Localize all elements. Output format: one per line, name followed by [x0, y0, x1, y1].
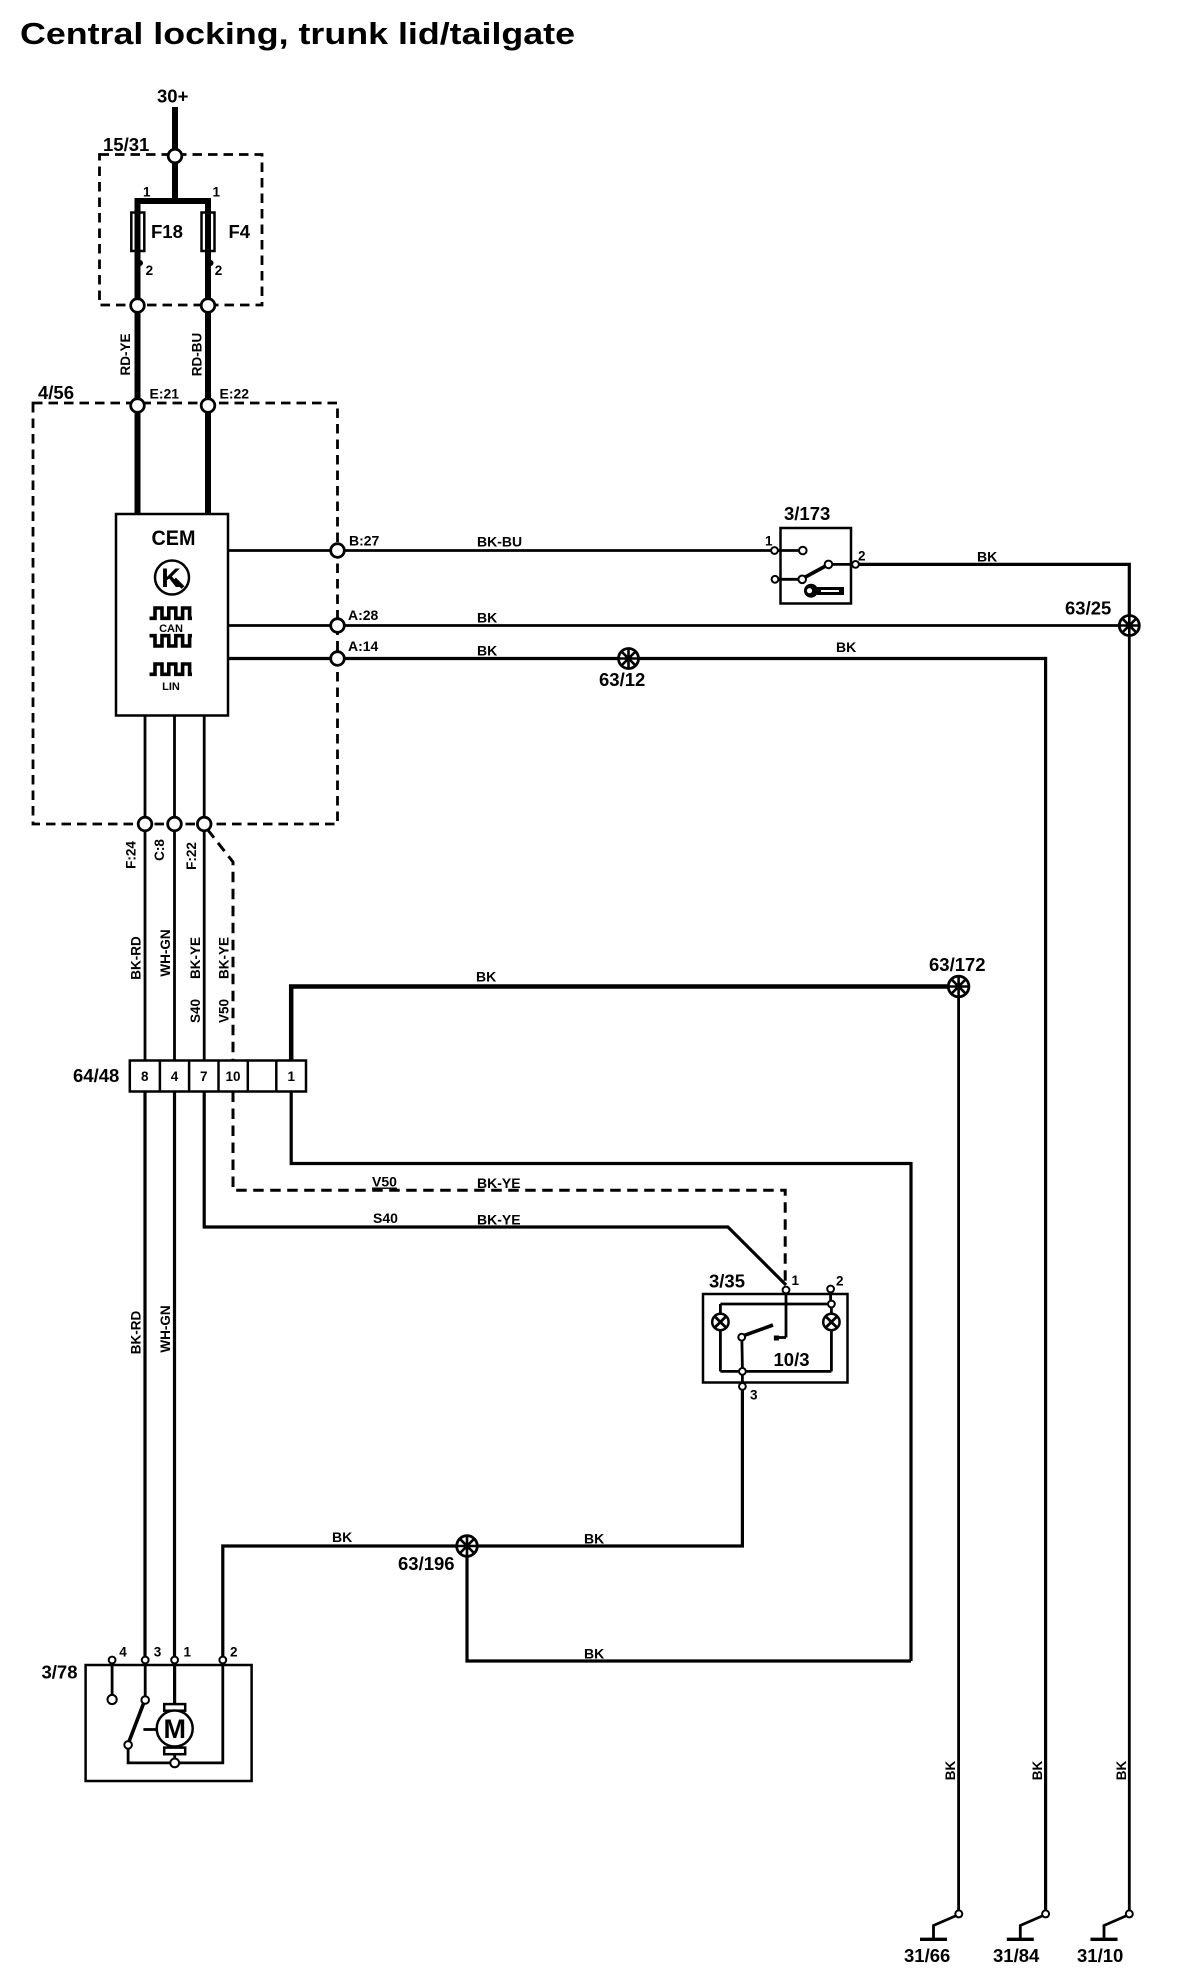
- svg-text:1: 1: [792, 1273, 800, 1288]
- svg-text:CEM: CEM: [152, 527, 196, 550]
- wire RD-YE: [135, 312, 141, 514]
- svg-text:BK: BK: [943, 1761, 958, 1781]
- connector E:22: [201, 399, 215, 413]
- pin 2 dot F18: [137, 260, 143, 266]
- svg-text:A:14: A:14: [348, 638, 379, 654]
- wire V50 BK-YE dashed branch: [208, 830, 234, 1061]
- svg-text:63/25: 63/25: [1065, 598, 1111, 619]
- wire 30+ feed: [172, 107, 178, 153]
- svg-text:3/173: 3/173: [784, 503, 830, 524]
- svg-text:B:27: B:27: [349, 533, 380, 549]
- wire V50 BK-YE dashed lower run: [233, 1092, 785, 1289]
- connector C:8: [168, 817, 182, 831]
- wire motor minus to pin 2: [179, 1663, 223, 1763]
- connector A:14: [331, 652, 345, 666]
- svg-text:S40: S40: [373, 1210, 398, 1226]
- svg-text:1: 1: [184, 1645, 192, 1660]
- trunk lid switch 3/35: [703, 1271, 848, 1403]
- pin F:22 stub: [203, 716, 206, 819]
- key symbol K: [155, 561, 189, 595]
- CAN symbol: [150, 608, 193, 618]
- svg-text:3/35: 3/35: [709, 1271, 745, 1292]
- svg-text:31/10: 31/10: [1077, 1945, 1123, 1966]
- pin B:27 stub: [228, 549, 331, 552]
- svg-text:63/196: 63/196: [398, 1553, 455, 1574]
- svg-text:10/3: 10/3: [774, 1349, 810, 1370]
- svg-text:V50: V50: [217, 999, 232, 1023]
- connector E:21: [131, 399, 145, 413]
- lamp right in 3/35: [823, 1314, 839, 1330]
- svg-text:2: 2: [858, 549, 866, 564]
- wire BK key switch to splice 63/25: [859, 564, 1129, 617]
- svg-text:64/48: 64/48: [73, 1065, 119, 1086]
- svg-text:4: 4: [171, 1069, 179, 1084]
- svg-text:3: 3: [750, 1388, 758, 1403]
- svg-text:31/66: 31/66: [904, 1945, 950, 1966]
- wire WH-GN lower run: [173, 1092, 176, 1657]
- wire BK-RD: [144, 831, 147, 1061]
- connector fuse box exit left: [131, 299, 145, 313]
- svg-text:BK-YE: BK-YE: [477, 1175, 521, 1191]
- pin 4 stub: [111, 1663, 114, 1695]
- wire S40 BK-YE lower run: [204, 1092, 786, 1286]
- wire WH-GN: [173, 831, 176, 1061]
- svg-text:2: 2: [230, 1645, 238, 1660]
- svg-text:BK: BK: [1114, 1761, 1129, 1781]
- svg-text:E:21: E:21: [150, 386, 180, 402]
- wire lamp feed from pin 1: [291, 1092, 911, 1662]
- motor M in 3/78: [173, 1663, 176, 1704]
- svg-text:M: M: [163, 1714, 186, 1744]
- svg-text:F18: F18: [151, 221, 183, 242]
- lamp left in 3/35: [712, 1314, 728, 1330]
- fuse box 15/31: [100, 155, 263, 306]
- wire BK to splice 63/172: [291, 987, 948, 1061]
- key switch 3/173: [765, 503, 866, 604]
- svg-text:BK: BK: [332, 1529, 352, 1545]
- svg-text:1: 1: [765, 534, 773, 549]
- svg-text:BK: BK: [584, 1531, 604, 1547]
- splice 63/25: [1065, 598, 1139, 636]
- svg-text:BK: BK: [476, 969, 496, 985]
- wire BK splice down and to lamp feed corner: [467, 1556, 911, 1662]
- svg-text:8: 8: [141, 1069, 149, 1084]
- svg-text:C:8: C:8: [152, 839, 167, 861]
- svg-text:4/56: 4/56: [38, 382, 74, 403]
- svg-text:BK-BU: BK-BU: [477, 534, 522, 550]
- lock motor unit 3/78: [42, 1645, 252, 1782]
- wire BK-BU to key switch: [344, 549, 771, 552]
- svg-text:BK: BK: [977, 549, 997, 565]
- svg-text:K: K: [161, 563, 181, 593]
- wire BK splice to lock unit pin 2: [223, 1546, 458, 1656]
- splice 63/12: [599, 649, 645, 691]
- svg-text:63/172: 63/172: [929, 954, 986, 975]
- svg-text:BK-YE: BK-YE: [217, 937, 232, 979]
- wire BK splice 63/12 to corner: [638, 657, 1047, 660]
- CEM module box: [116, 514, 228, 716]
- pin F:24 stub: [144, 716, 147, 819]
- wire BK down to ground 31/84: [1044, 659, 1045, 1911]
- svg-text:3: 3: [154, 1645, 162, 1660]
- connector F:22: [197, 817, 211, 831]
- connector F:24: [138, 817, 152, 831]
- svg-text:BK: BK: [477, 643, 497, 659]
- svg-text:BK: BK: [836, 639, 856, 655]
- svg-text:BK: BK: [1030, 1761, 1045, 1781]
- svg-text:RD-BU: RD-BU: [190, 333, 205, 377]
- wire BK down to ground 31/10: [1128, 635, 1131, 1911]
- svg-text:3/78: 3/78: [42, 1662, 78, 1683]
- pin C:8 stub: [173, 716, 176, 819]
- ground 31/84: [993, 1910, 1049, 1966]
- svg-text:10: 10: [225, 1069, 240, 1084]
- svg-text:S40: S40: [188, 999, 203, 1023]
- wire 30+ to fuse bus: [172, 163, 178, 201]
- ground 31/10: [1077, 1910, 1133, 1966]
- svg-text:BK: BK: [477, 610, 497, 626]
- switch lever in 3/35: [744, 1325, 774, 1336]
- svg-text:1: 1: [287, 1069, 295, 1084]
- LIN symbol: [150, 664, 193, 674]
- wire fuse feed bus: [135, 198, 212, 204]
- svg-text:WH-GN: WH-GN: [158, 1305, 173, 1352]
- wire pivot to motor minus: [128, 1749, 170, 1763]
- wire RD-BU: [205, 312, 211, 514]
- svg-text:2: 2: [836, 1274, 844, 1289]
- svg-text:BK-YE: BK-YE: [188, 937, 203, 979]
- svg-text:WH-GN: WH-GN: [158, 929, 173, 976]
- connector 64/48: [73, 1061, 306, 1092]
- svg-text:F:22: F:22: [184, 842, 199, 870]
- wire BK switch 3/35 to splice 63/196: [476, 1390, 742, 1546]
- splice 63/172: [929, 954, 986, 997]
- wire F4 leg: [205, 198, 211, 305]
- wire BK to splice 63/25: [344, 624, 1119, 627]
- connector B:27: [331, 544, 345, 558]
- svg-text:BK-RD: BK-RD: [129, 936, 144, 980]
- svg-text:E:22: E:22: [220, 386, 250, 402]
- svg-text:RD-YE: RD-YE: [118, 333, 133, 375]
- connector fuse box exit right: [201, 299, 215, 313]
- svg-text:F:24: F:24: [124, 841, 139, 869]
- svg-text:V50: V50: [372, 1174, 397, 1190]
- wire S40 BK-YE: [203, 831, 206, 1061]
- splice 63/196: [398, 1536, 477, 1574]
- wire BK-RD lower run: [143, 1092, 146, 1657]
- wire BK down to ground 31/66: [957, 996, 960, 1910]
- wire BK to splice 63/12: [344, 657, 618, 660]
- svg-text:A:28: A:28: [348, 607, 379, 623]
- ground 31/66: [904, 1910, 962, 1966]
- svg-text:BK-RD: BK-RD: [129, 1311, 144, 1355]
- svg-text:BK-YE: BK-YE: [477, 1212, 521, 1228]
- switch in 3/78: [144, 1663, 147, 1696]
- fuse F18: [131, 213, 144, 252]
- svg-text:1: 1: [143, 185, 151, 200]
- svg-text:7: 7: [200, 1069, 208, 1084]
- svg-text:1: 1: [213, 185, 221, 200]
- pin 2 dot F4: [208, 260, 214, 266]
- svg-text:CAN: CAN: [159, 623, 183, 635]
- wire F18 leg: [135, 198, 141, 305]
- pin A:28 stub: [228, 624, 331, 627]
- connector A:28: [331, 619, 345, 633]
- fuse F4: [202, 213, 215, 252]
- pin A:14 stub: [228, 657, 331, 660]
- ECU enclosure 4/56: [33, 403, 338, 824]
- svg-text:2: 2: [215, 263, 223, 278]
- svg-text:LIN: LIN: [162, 681, 180, 693]
- svg-text:63/12: 63/12: [599, 669, 645, 690]
- svg-text:15/31: 15/31: [103, 134, 149, 155]
- svg-text:30+: 30+: [157, 86, 189, 107]
- svg-text:BK: BK: [584, 1646, 604, 1662]
- connector 15/31 feed: [168, 149, 182, 163]
- svg-text:F4: F4: [229, 221, 251, 242]
- svg-text:31/84: 31/84: [993, 1945, 1040, 1966]
- svg-text:4: 4: [119, 1645, 127, 1660]
- svg-text:2: 2: [146, 263, 154, 278]
- svg-text:Central locking, trunk lid/tai: Central locking, trunk lid/tailgate: [20, 16, 575, 51]
